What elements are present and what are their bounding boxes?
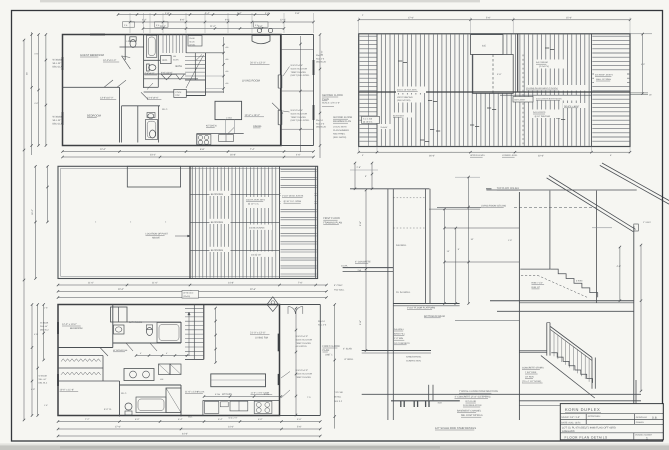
svg-text:FRAMING PLAN: FRAMING PLAN [333, 120, 351, 123]
svg-text:TEMP GLAZED: TEMP GLAZED [296, 376, 312, 379]
svg-text:10'-6" x 13'-0": 10'-6" x 13'-0" [245, 114, 260, 117]
svg-text:FND WALL: FND WALL [334, 288, 345, 291]
svg-text:DBL GLZ: DBL GLZ [39, 382, 48, 385]
sf bottom dim row [359, 151, 630, 153]
svg-text:10'-0"x11'-0": 10'-0"x11'-0" [103, 59, 116, 62]
section left dim [365, 190, 367, 351]
svg-text:5'-6": 5'-6" [297, 426, 302, 429]
svg-text:DBL GLAZ: DBL GLAZ [53, 123, 65, 126]
svg-text:4'-0": 4'-0" [265, 12, 270, 15]
svg-text:22'-6": 22'-6" [538, 154, 544, 157]
svg-text:BLOCKING: BLOCKING [211, 193, 223, 196]
svg-text:4'-8": 4'-8" [31, 388, 35, 391]
ff bath1 vanity [114, 325, 125, 334]
svg-text:DBL GLAZ: DBL GLAZ [53, 66, 65, 69]
svg-text:DESIGN BY: DESIGN BY [636, 416, 648, 419]
lower bath sink [148, 114, 154, 119]
first floor outer walls [58, 305, 280, 416]
interior wall bedroom east [119, 87, 121, 142]
svg-text:SLDG GL DOOR: SLDG GL DOOR [291, 112, 308, 115]
sf framing right bay rungs [592, 35, 629, 37]
dimension row top 1 [118, 14, 269, 16]
svg-text:BLOCKING: BLOCKING [211, 221, 223, 224]
svg-text:7'-6"x5'-0": 7'-6"x5'-0" [145, 72, 155, 75]
svg-text:RUN 10": RUN 10" [532, 286, 541, 289]
sf framing left bay rungs [360, 35, 378, 37]
sf framing left bay wall [376, 34, 378, 147]
svg-text:11'-0": 11'-0" [210, 25, 216, 28]
interior wall living/deck [280, 35, 282, 75]
sf door swing marks extra [147, 83, 153, 90]
attic access note [182, 291, 199, 299]
deck ladder joists [281, 168, 317, 170]
roof slope S1 [549, 176, 636, 230]
first floor deck east [319, 305, 321, 416]
svg-text:2'-8": 2'-8" [357, 166, 362, 169]
svg-text:TEMP GLAZED: TEMP GLAZED [296, 342, 312, 345]
svg-text:SCALE: 1/4"=1'-0": SCALE: 1/4"=1'-0" [561, 416, 580, 419]
hall north wall [144, 73, 186, 75]
sf label splice [563, 103, 587, 108]
svg-text:ANSGARD: ANSGARD [562, 430, 575, 433]
island connectors [224, 120, 226, 134]
ff kitchen sink [230, 401, 248, 411]
ff closet band walls [58, 355, 103, 357]
svg-text:4" CONCRETE (2"x4" SLEEPERS): 4" CONCRETE (2"x4" SLEEPERS) [455, 396, 491, 399]
svg-text:DRAWING NUMBER: DRAWING NUMBER [635, 434, 653, 437]
ff bottom dim row 3 [58, 435, 320, 437]
second floor platform line [490, 300, 634, 302]
sf top dim row [359, 19, 630, 21]
ff bath2 shower [166, 388, 181, 413]
svg-text:DBL JOIST DETAILS: DBL JOIST DETAILS [461, 414, 483, 417]
svg-text:LIN: LIN [160, 378, 164, 381]
svg-text:2x6 WALL: 2x6 WALL [394, 328, 405, 331]
door leaders [283, 67, 290, 77]
svg-text:7 3/4" RISE: 7 3/4" RISE [525, 371, 537, 374]
bath bedroom wall piece [144, 86, 159, 88]
interior dim chain living [223, 37, 225, 93]
svg-text:1: 1 [646, 436, 648, 440]
svg-text:4x5: 4x5 [482, 45, 487, 48]
svg-text:17'-0": 17'-0" [408, 16, 414, 19]
svg-text:BACK FILL: BACK FILL [394, 333, 406, 336]
tub upper bath [147, 35, 157, 57]
section dashed plate 2 [393, 227, 425, 229]
sf blocking dashes [428, 100, 432, 102]
svg-text:(TO x 7 1/2" NOSE): (TO x 7 1/2" NOSE) [522, 380, 541, 383]
framing bottom dim row 3 [58, 297, 327, 299]
extension lines top [129, 13, 131, 33]
svg-text:BLOCKING: BLOCKING [393, 114, 404, 117]
svg-text:COMPACTION: COMPACTION [406, 360, 421, 363]
svg-text:SLDG GL DOOR: SLDG GL DOOR [291, 67, 308, 70]
svg-text:AND PANEL: AND PANEL [333, 133, 346, 136]
svg-text:8'-8": 8'-8" [200, 148, 205, 151]
deck joist label box [281, 193, 315, 206]
framing ladder divider [279, 166, 281, 278]
svg-text:13'-6"x10'-0": 13'-6"x10'-0" [100, 97, 114, 100]
svg-text:23'-4": 23'-4" [150, 154, 156, 157]
svg-text:4'-6": 4'-6" [617, 265, 622, 268]
bath east wall [144, 78, 198, 80]
upper landing line [520, 268, 550, 270]
roof vent detail [634, 224, 639, 231]
svg-text:SCALE: 1/4"=1'-0": SCALE: 1/4"=1'-0" [322, 101, 340, 104]
svg-text:KORN DUPLEX: KORN DUPLEX [565, 407, 600, 412]
svg-text:LOCAL NOTE: LOCAL NOTE [333, 126, 347, 129]
svg-text:20'-6" x 13'-0": 20'-6" x 13'-0" [250, 62, 265, 65]
svg-text:UNIT 1: UNIT 1 [325, 354, 333, 357]
svg-text:TOP PLATE CEILING: TOP PLATE CEILING [497, 187, 519, 190]
svg-text:4x12 BEAM: 4x12 BEAM [536, 61, 548, 64]
svg-text:(SEE NOTES): (SEE NOTES) [397, 99, 411, 102]
closet zigzag 2 [61, 372, 101, 375]
stair section right wall [633, 226, 635, 412]
svg-text:PLAN: PLAN [323, 349, 330, 352]
framing plan outer wall [58, 166, 318, 278]
svg-text:SAND/GRAVEL: SAND/GRAVEL [406, 356, 422, 359]
ff wall hall [58, 347, 113, 349]
ff interior dim chain 1 [215, 308, 217, 363]
svg-text:6'-0": 6'-0" [135, 418, 140, 421]
svg-text:LIN: LIN [173, 55, 177, 58]
section right dims v [444, 209, 446, 303]
sf framing left bay rail [368, 34, 370, 147]
lower bath east wall [158, 106, 160, 143]
bottom dim rows plan1 [63, 151, 314, 153]
svg-text:2'-0" MIN: 2'-0" MIN [394, 337, 403, 340]
ff closets small [159, 364, 171, 375]
section dashed plate [393, 197, 425, 199]
ff window leaders [281, 372, 290, 379]
ff right dim [334, 305, 336, 429]
ff bath2 tub [136, 397, 166, 413]
svg-text:8": 8" [365, 175, 367, 178]
svg-text:4'-6": 4'-6" [359, 320, 362, 325]
kitchen island second floor [215, 101, 242, 119]
blocking label 1 [210, 191, 231, 196]
svg-text:15'-6": 15'-6" [566, 16, 572, 19]
dimension row top 2 [130, 21, 314, 23]
ff stair arrow [188, 312, 190, 356]
plan1 top wall window mark [90, 34, 105, 36]
deck tick lines [281, 49, 314, 51]
svg-text:CLOS: CLOS [173, 58, 179, 61]
interior wall hall west [143, 35, 145, 89]
washer dryer box [161, 56, 172, 64]
first floor ceiling line [497, 310, 634, 312]
deck dim chain [300, 36, 302, 152]
svg-text:2"x10" FLOOR PLATFORM: 2"x10" FLOOR PLATFORM [407, 307, 435, 310]
svg-text:@ 16" O.C. SPAN: @ 16" O.C. SPAN [284, 200, 302, 203]
dimension row top 3 [143, 28, 284, 30]
svg-text:26'-6": 26'-6" [429, 154, 435, 157]
svg-text:C.J.'s 2x6: C.J.'s 2x6 [363, 117, 373, 120]
svg-text:2x6 @ 16": 2x6 @ 16" [251, 254, 261, 257]
svg-text:SPLICE + BENT: SPLICE + BENT [564, 105, 580, 108]
sf framing right bay wall [591, 34, 593, 147]
stair lower wall [205, 53, 207, 96]
svg-text:8'-6": 8'-6" [180, 19, 185, 22]
blocking label 3 [210, 247, 231, 252]
ff bottom dim row 2 [58, 428, 320, 430]
upper stair dashed headroom [521, 274, 538, 276]
svg-text:11'-6" x 13'-0": 11'-6" x 13'-0" [185, 391, 199, 394]
framing bottom dim row 1 [58, 284, 327, 286]
ff hall dim chain [136, 355, 187, 357]
basement floor long line [362, 393, 641, 395]
svg-text:GUEST BEDROOM: GUEST BEDROOM [80, 54, 105, 57]
svg-text:11'-0": 11'-0" [152, 282, 158, 285]
ff kitchen dim chain [204, 396, 281, 398]
svg-text:SLDG GL DOOR: SLDG GL DOOR [296, 372, 313, 375]
svg-text:17'-0": 17'-0" [115, 426, 121, 429]
svg-text:BOTTOM OF BEAM: BOTTOM OF BEAM [424, 315, 445, 318]
cooktop boxed label [174, 89, 187, 97]
framing plan notch box [127, 166, 180, 187]
svg-text:W 8'-0"x4'-6": W 8'-0"x4'-6" [291, 109, 304, 112]
svg-text:2x10 FLOOR JSTS: 2x10 FLOOR JSTS [246, 199, 265, 202]
svg-text:W 36x48: W 36x48 [39, 375, 48, 378]
svg-text:SILL 44": SILL 44" [40, 325, 48, 328]
svg-text:10'-0" x 11'-6": 10'-0" x 11'-6" [60, 389, 75, 392]
svg-text:(SEE DWGS): (SEE DWGS) [333, 136, 347, 139]
sf heavy stud line [517, 34, 519, 92]
stair handrail [550, 327, 592, 358]
svg-text:RISE 7 1/2": RISE 7 1/2" [532, 281, 544, 284]
hall tick extensions [206, 75, 224, 77]
blocking label 2 [210, 219, 231, 224]
stair section inner wall [596, 191, 598, 303]
svg-text:2x4x14': 2x4x14' [381, 126, 389, 129]
ff wf label box [220, 402, 228, 407]
left overall dim line [23, 40, 25, 420]
svg-text:LIVING RM: LIVING RM [255, 337, 268, 340]
ff wall bed2 east [119, 381, 121, 417]
ff bath1 tub [157, 323, 181, 343]
svg-text:4" CONCRETE: 4" CONCRETE [355, 260, 371, 263]
svg-text:W.I.C.: W.I.C. [162, 108, 168, 111]
svg-text:BEDROOM: BEDROOM [87, 115, 102, 118]
stair right dim line [640, 245, 642, 391]
roof slope S2 [602, 163, 669, 201]
svg-text:4'-2": 4'-2" [142, 19, 147, 22]
svg-text:12'-2": 12'-2" [280, 19, 286, 22]
svg-text:8" CONC: 8" CONC [334, 284, 343, 287]
stair balusters [553, 332, 555, 356]
svg-text:@ 16" SPACING: @ 16" SPACING [535, 115, 551, 118]
svg-text:W 36x48: W 36x48 [53, 59, 63, 62]
left dim line plan1 c [45, 35, 47, 146]
basement slab heavy [391, 400, 460, 402]
ff bottom dim row 1 [58, 421, 320, 423]
blocking band 1 [190, 193, 280, 195]
top plate long line [486, 189, 636, 191]
floor platform [393, 303, 459, 305]
ff range [254, 401, 272, 413]
ff left dims [31, 305, 33, 416]
closet wall top-left [124, 35, 126, 61]
toilet mid bath [149, 65, 156, 71]
blocking band 3 [190, 249, 280, 251]
svg-text:W.D. 2'-8": W.D. 2'-8" [229, 417, 238, 420]
svg-text:LEVEL: LEVEL [189, 43, 196, 46]
svg-text:DBL GLZD: DBL GLZD [316, 126, 327, 129]
double door V right [176, 74, 185, 80]
svg-text:4'-6": 4'-6" [34, 102, 38, 105]
svg-text:7'-4": 7'-4" [250, 148, 255, 151]
svg-text:4'-6": 4'-6" [497, 73, 502, 76]
svg-text:CONCRETE STAIRS: CONCRETE STAIRS [522, 367, 544, 370]
svg-text:4'x6': 4'x6' [438, 402, 443, 405]
svg-text:1'-6": 1'-6" [44, 307, 48, 310]
svg-text:14'-0": 14'-0" [228, 426, 234, 429]
svg-text:SILL 44": SILL 44" [39, 378, 47, 381]
fireplace flue vents [257, 28, 261, 32]
framing left dim [35, 166, 37, 278]
svg-text:SCUT.: SCUT. [189, 40, 195, 43]
svg-text:(FLUSH) GLUED BENT (2-2x10's): (FLUSH) GLUED BENT (2-2x10's) [526, 87, 558, 90]
section top dims [354, 163, 356, 189]
sliding door symbol lower [277, 110, 279, 125]
ff french door arcs [288, 307, 295, 314]
svg-text:FLOOR PLAN DETAILS: FLOOR PLAN DETAILS [565, 436, 608, 440]
svg-text:R-28 INSULATION: R-28 INSULATION [463, 404, 482, 407]
stair section left wall [518, 192, 520, 420]
top scan smudge [40, 0, 480, 2]
svg-text:2x10 x 16' FLR JSTS: 2x10 x 16' FLR JSTS [397, 89, 417, 92]
svg-text:TEMP GLAZED: TEMP GLAZED [291, 71, 307, 74]
svg-text:TYP FND: TYP FND [334, 391, 343, 394]
svg-text:22x30: 22x30 [189, 37, 195, 40]
svg-text:WALL 16' SPAN: WALL 16' SPAN [596, 78, 611, 81]
svg-text:W.D.: W.D. [188, 416, 193, 419]
svg-text:BASEMENT CHANNEL: BASEMENT CHANNEL [457, 409, 482, 412]
upper stair dim [619, 247, 621, 301]
sf cj boxed note [362, 116, 380, 123]
svg-text:SILL 4'-6: SILL 4'-6 [316, 57, 325, 60]
section ceil ref lines [429, 208, 480, 210]
concrete underside [541, 356, 595, 398]
svg-text:(SAFT) AS LISTED: (SAFT) AS LISTED [291, 74, 310, 77]
lower stair steps [551, 353, 592, 383]
svg-text:5'-6": 5'-6" [486, 16, 491, 19]
sf label joists left [396, 87, 426, 94]
svg-text:DINING: DINING [253, 125, 262, 128]
section bottom wall pair [428, 385, 430, 401]
svg-text:LOWER LEVEL: LOWER LEVEL [502, 154, 518, 157]
ff linen closets top [111, 307, 128, 322]
svg-text:16": 16" [649, 94, 652, 97]
bath north wall [144, 59, 160, 61]
svg-text:SILL 44": SILL 44" [53, 62, 62, 65]
svg-text:2" VENT: 2" VENT [643, 221, 651, 224]
svg-text:9'-6"x10'-0": 9'-6"x10'-0" [161, 72, 173, 75]
joist area label 3 [250, 252, 273, 257]
svg-text:D.B.: D.B. [652, 415, 658, 419]
ff kitchen island [211, 374, 266, 387]
lower closet wall [121, 106, 123, 143]
svg-text:SECOND FLOOR: SECOND FLOOR [322, 94, 343, 97]
svg-text:12'-0": 12'-0" [100, 148, 106, 151]
sf framing joists [380, 35, 382, 146]
svg-text:2x10 JOISTS: 2x10 JOISTS [533, 111, 546, 114]
floor joist end blocks [400, 401, 402, 407]
svg-text:4'-0": 4'-0" [296, 154, 301, 157]
svg-text:W 36x48: W 36x48 [40, 322, 49, 325]
svg-text:11'-0": 11'-0" [88, 282, 94, 285]
sf top extensions [358, 18, 360, 34]
svg-text:DBL GLZD: DBL GLZD [316, 61, 327, 64]
svg-text:LIVING ROOM CEILING: LIVING ROOM CEILING [481, 205, 506, 208]
svg-text:BATHROOM: BATHROOM [129, 321, 142, 324]
stair arrow diagonal [186, 55, 204, 88]
svg-text:FRAMING PLAN: FRAMING PLAN [323, 222, 342, 225]
svg-text:LIN: LIN [127, 40, 131, 43]
sf label 2x4 [380, 124, 394, 129]
ff wall bed1 east [112, 305, 114, 348]
svg-text:10. 2x4 WALL: 10. 2x4 WALL [396, 291, 411, 294]
svg-text:W 36x48: W 36x48 [53, 116, 63, 119]
svg-text:BEDROOM: BEDROOM [70, 327, 82, 330]
svg-text:2x10 JOISTS BOTH SIDES: 2x10 JOISTS BOTH SIDES [536, 97, 562, 100]
sf framing outer wall [359, 34, 630, 147]
svg-text:W 8'-0"x4'-0": W 8'-0"x4'-0" [296, 335, 309, 338]
svg-text:ATTIC ACC: ATTIC ACC [183, 292, 194, 295]
svg-text:TYPICAL FLOOR CONSTRUCTION: TYPICAL FLOOR CONSTRUCTION [459, 390, 498, 393]
deck east wall window marks [313, 60, 315, 75]
svg-text:TOP: TOP [175, 94, 180, 97]
sf label spacing [396, 95, 423, 103]
svg-text:21'-0" x 13'-6": 21'-0" x 13'-6" [250, 332, 265, 335]
svg-text:LOCATION OF POST: LOCATION OF POST [146, 233, 169, 236]
ff interior dim chain 2 [295, 308, 297, 415]
svg-text:SILL 2'-0: SILL 2'-0 [316, 122, 325, 125]
title block row lines [560, 413, 663, 415]
svg-text:6'-4": 6'-4" [178, 418, 183, 421]
svg-text:DETAIL: DETAIL [334, 395, 342, 398]
svg-text:7'-0": 7'-0" [298, 282, 303, 285]
svg-text:DATE: AUG. 13/74: DATE: AUG. 13/74 [561, 421, 581, 424]
blocking band 2 [190, 221, 280, 223]
door swing bedroom1 [122, 56, 131, 69]
joist area label 2 [248, 225, 272, 230]
right dim line plan1 [319, 35, 321, 159]
svg-text:16'-0": 16'-0" [31, 209, 34, 215]
svg-text:FIRST FLOOR: FIRST FLOOR [323, 345, 340, 348]
door swing hall [141, 92, 148, 99]
stair west wall [157, 35, 159, 88]
svg-text:1'-6": 1'-6" [44, 404, 48, 407]
svg-text:30x4'-0: 30x4'-0 [318, 320, 326, 323]
svg-text:4'-6": 4'-6" [641, 63, 645, 66]
svg-text:R/T+R AIR: R/T+R AIR [466, 400, 477, 403]
sf label joists both sides [535, 96, 580, 101]
svg-text:5'-4": 5'-4" [205, 12, 210, 15]
lower stair newel post [546, 323, 548, 356]
svg-text:1'-6": 1'-6" [508, 239, 512, 242]
interior wall bedroom divider [63, 86, 120, 88]
stair east wall [185, 35, 187, 54]
svg-text:SECOND FLOOR: SECOND FLOOR [333, 116, 352, 119]
svg-text:4'-6": 4'-6" [34, 53, 38, 56]
svg-text:14'-8": 14'-8" [228, 282, 234, 285]
svg-text:5'-0in: 5'-0in [215, 393, 221, 396]
sf bottom extensions [358, 147, 360, 152]
stair boxed note [188, 36, 202, 47]
svg-text:9'-8": 9'-8" [225, 19, 230, 22]
